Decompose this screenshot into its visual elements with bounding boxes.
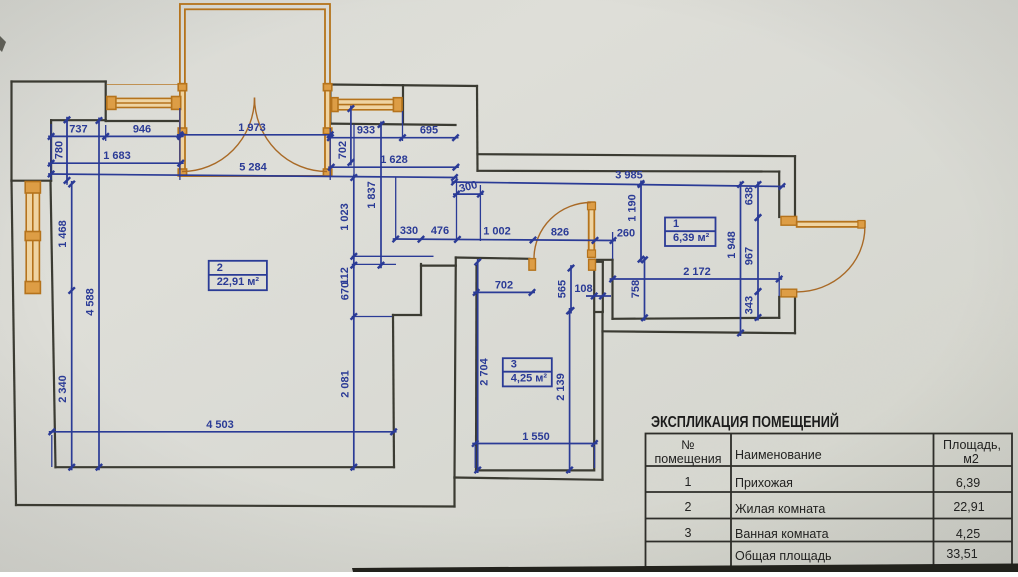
svg-text:695: 695 [420, 125, 438, 137]
dimension 4 588 [85, 117, 103, 470]
dimension 3 985 [451, 170, 785, 190]
wall: hallway inner left [611, 260, 613, 319]
svg-text:702: 702 [337, 141, 349, 159]
svg-text:6,39: 6,39 [956, 476, 980, 490]
extension lines [51, 108, 779, 468]
wall: bathroom outer-left [455, 258, 456, 478]
svg-text:1 948: 1 948 [726, 231, 738, 259]
wall: entry right outer above door [794, 156, 796, 218]
wall: bathroom jog [595, 311, 603, 313]
wall: room2 right face upper [420, 264, 422, 315]
svg-text:4 588: 4 588 [85, 288, 97, 316]
balcony walls [180, 4, 330, 176]
dimension 2 340 [57, 288, 75, 471]
svg-text:м2: м2 [963, 452, 979, 466]
svg-text:22,91 м²: 22,91 м² [217, 276, 260, 288]
room label room 2 [209, 261, 267, 290]
svg-text:№: № [681, 438, 694, 452]
wall: room2 top inner face, left of balcony [106, 120, 179, 122]
wall: hallway inner bottom [613, 318, 780, 319]
explication table [646, 434, 1013, 568]
balcony door swing arcs [182, 98, 255, 172]
svg-text:1: 1 [673, 218, 679, 230]
dimension 702v [337, 105, 354, 165]
svg-text:2 081: 2 081 [339, 370, 351, 398]
dimension 1 550 [472, 431, 598, 447]
svg-text:946: 946 [133, 124, 151, 136]
svg-text:2 172: 2 172 [683, 266, 711, 278]
wall: room2 inner bottom [56, 466, 395, 468]
svg-text:33,51: 33,51 [946, 547, 977, 561]
dimension 2 081 [339, 314, 357, 471]
wall: niche top band [421, 265, 456, 267]
svg-text:1 628: 1 628 [380, 154, 408, 166]
dimension 565 [557, 265, 575, 314]
wall: inner face right of balcony [331, 124, 456, 125]
svg-text:565: 565 [557, 280, 569, 298]
wall: entry right inner below door [778, 297, 780, 318]
svg-text:1 468: 1 468 [57, 220, 69, 248]
svg-text:108: 108 [574, 283, 592, 295]
dimension 933 [327, 125, 406, 141]
svg-text:933: 933 [357, 125, 375, 137]
svg-text:Ванная комната: Ванная комната [735, 527, 829, 541]
svg-text:3: 3 [685, 526, 692, 540]
door to bathroom lobby (826) [529, 202, 596, 270]
svg-text:1 023: 1 023 [339, 203, 351, 231]
svg-text:260: 260 [617, 228, 635, 240]
svg-text:737: 737 [69, 124, 87, 136]
svg-text:Прихожая: Прихожая [735, 476, 793, 490]
svg-text:4,25: 4,25 [956, 527, 980, 541]
wall: bathroom inner bottom [476, 469, 594, 471]
wall: 300-jog wall B [476, 86, 479, 171]
dimension 702 [473, 280, 535, 296]
wall: top wall right of balcony, outer [330, 85, 477, 87]
dimension 758 [630, 257, 648, 321]
wall: hallway outer bottom [603, 331, 796, 333]
svg-text:1 973: 1 973 [238, 122, 266, 134]
svg-text:702: 702 [495, 280, 513, 292]
dimension 2 172 [609, 266, 782, 282]
dimension 1 190 [627, 180, 645, 262]
dimension 1 948 [726, 181, 744, 336]
svg-text:6,39 м²: 6,39 м² [673, 232, 710, 244]
wall: hallway top inner [478, 170, 780, 173]
svg-text:476: 476 [431, 225, 449, 237]
dimension 695 [400, 125, 459, 141]
svg-text:Жилая комната: Жилая комната [735, 502, 825, 516]
wall: bathroom/hall wall hallway face [602, 262, 604, 311]
svg-text:1 190: 1 190 [627, 194, 639, 222]
svg-text:780: 780 [54, 141, 66, 159]
svg-text:2: 2 [685, 500, 692, 514]
svg-text:670: 670 [339, 282, 351, 300]
dimension 300 [453, 179, 484, 197]
wall: bathroom inner-left [475, 266, 478, 470]
svg-text:2 704: 2 704 [479, 357, 491, 385]
window on left wall (vertical) [25, 182, 40, 294]
svg-text:2 139: 2 139 [555, 373, 567, 401]
dark mark on left photo edge [0, 36, 6, 52]
dimension 4 503 [49, 419, 397, 435]
svg-text:3 985: 3 985 [615, 170, 643, 182]
svg-text:Наименование: Наименование [735, 448, 822, 462]
wall: room2 right face lower [393, 315, 394, 467]
dimension 670 [339, 262, 357, 320]
walls group [12, 82, 796, 507]
svg-text:22,91: 22,91 [953, 500, 984, 514]
dimension 2 139 [555, 308, 573, 473]
dimension 2 704 [475, 259, 491, 473]
dimension chain [393, 236, 617, 244]
table text [654, 438, 1000, 563]
svg-text:638: 638 [744, 187, 756, 205]
room label room 1 [665, 218, 716, 247]
svg-text:Площадь,: Площадь, [943, 438, 1001, 452]
svg-text:758: 758 [630, 280, 642, 298]
wall: entry right outer below door [794, 297, 796, 333]
dimension 1 973 [177, 122, 334, 138]
wall: entry right inner above door [778, 172, 780, 218]
dimension 108 [574, 283, 611, 299]
dimension 1 837 [366, 121, 384, 268]
dimension 1 023 [339, 174, 357, 259]
room label room 3 [503, 358, 552, 386]
dimension 112 [339, 253, 357, 285]
svg-text:1: 1 [685, 475, 692, 489]
wall: bathroom inner right [593, 270, 595, 470]
wall: outer bottom [16, 505, 455, 507]
balcony left window strip [178, 84, 186, 176]
dimension 343 [744, 288, 762, 320]
svg-text:помещения: помещения [654, 452, 721, 466]
svg-text:826: 826 [551, 227, 569, 239]
dimension 737 [48, 124, 109, 140]
svg-text:1 837: 1 837 [366, 181, 378, 209]
entrance door [781, 216, 865, 297]
svg-text:967: 967 [744, 247, 756, 265]
dimension 1 628 [328, 154, 459, 171]
wall: bathroom outer bottom [455, 478, 603, 480]
svg-text:1 683: 1 683 [103, 150, 131, 162]
dimension 638 [744, 181, 762, 221]
svg-text:5 284: 5 284 [239, 162, 267, 174]
svg-text:1 550: 1 550 [522, 431, 550, 443]
dimension 967 [744, 214, 762, 294]
svg-text:4 503: 4 503 [206, 419, 234, 431]
svg-text:Общая площадь: Общая площадь [735, 549, 832, 563]
dimension 1 468 [57, 181, 75, 294]
wall: hallway top outer [478, 154, 796, 156]
dimension 946 [103, 124, 184, 140]
dimension 780 [54, 117, 71, 184]
balcony right window strip [323, 84, 331, 176]
dark strip at photo bottom [352, 564, 1018, 573]
wall: window jamb vertical [402, 85, 404, 123]
wall: top-left closet outline [12, 80, 106, 82]
svg-text:3: 3 [511, 359, 517, 371]
wall: room2 step [393, 314, 421, 316]
svg-text:4,25 м²: 4,25 м² [511, 372, 548, 384]
wall: outer bottom up-step to bathroom [453, 478, 455, 507]
window right of balcony (horizontal) [332, 98, 402, 112]
svg-text:343: 343 [744, 296, 756, 314]
wall: room2 inner left face [51, 181, 56, 468]
svg-text:2 340: 2 340 [57, 375, 69, 403]
window left of balcony (horizontal) [107, 85, 181, 110]
wall: outer left wall [12, 181, 17, 505]
svg-text:ЭКСПЛИКАЦИЯ ПОМЕЩЕНИЙ: ЭКСПЛИКАЦИЯ ПОМЕЩЕНИЙ [651, 413, 839, 431]
svg-text:2: 2 [217, 262, 223, 274]
dimension 1 683 [48, 150, 184, 166]
svg-text:330: 330 [400, 225, 418, 237]
dimension 5 284 [48, 162, 458, 181]
svg-text:1 002: 1 002 [483, 226, 511, 238]
